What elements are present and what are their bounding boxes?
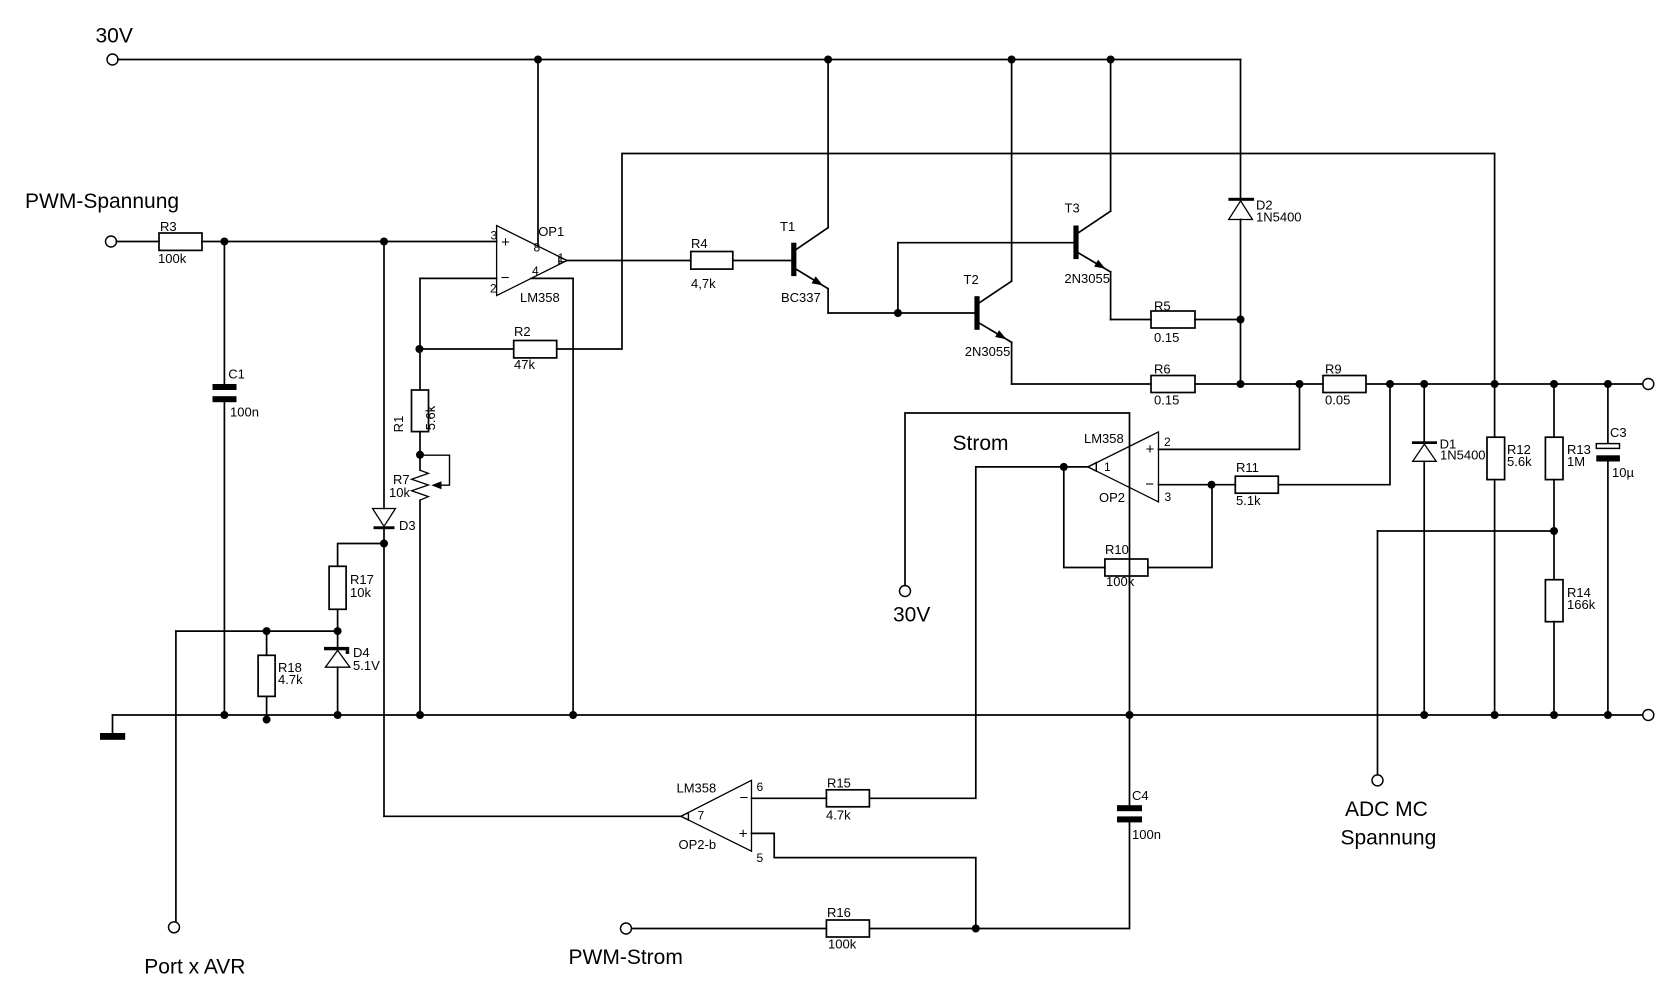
wire R10 left xyxy=(1064,467,1105,568)
svg-text:4.7k: 4.7k xyxy=(278,672,303,687)
svg-text:T3: T3 xyxy=(1065,201,1080,216)
svg-text:0.05: 0.05 xyxy=(1325,393,1350,408)
transistor T2 base bar xyxy=(974,296,979,330)
resistor R11 xyxy=(1235,476,1278,493)
junction R12 top xyxy=(1491,380,1499,388)
svg-text:−: − xyxy=(740,789,749,806)
svg-text:4: 4 xyxy=(532,264,539,278)
svg-text:LM358: LM358 xyxy=(677,781,717,796)
transistor T1 base bar xyxy=(791,243,796,276)
svg-text:C3: C3 xyxy=(1610,425,1627,440)
junction T1 emitter node xyxy=(894,309,902,317)
resistor R2 xyxy=(514,341,557,358)
wire ADC tap horizontal xyxy=(1378,530,1555,532)
wire R2 left xyxy=(420,348,514,350)
svg-text:5.6k: 5.6k xyxy=(423,405,438,430)
svg-text:ADC MC: ADC MC xyxy=(1345,798,1428,821)
terminal output plus xyxy=(1643,379,1654,390)
wire T1 emitter down xyxy=(827,289,829,313)
svg-text:C4: C4 xyxy=(1132,788,1149,803)
wire C1 to ground rail xyxy=(223,402,225,715)
wire C3 top xyxy=(1607,384,1609,444)
svg-text:−: − xyxy=(501,270,510,287)
svg-text:47k: 47k xyxy=(514,357,535,372)
wire OP2 minus input xyxy=(1159,484,1236,486)
resistor R9 xyxy=(1323,376,1366,393)
wire PWM input to R3 xyxy=(117,241,160,243)
svg-text:5.6k: 5.6k xyxy=(1507,454,1532,469)
wire R5 to D2 node xyxy=(1195,319,1241,321)
svg-text:0.15: 0.15 xyxy=(1154,330,1179,345)
junction OP2-b plus node xyxy=(972,925,980,933)
wire 30V aux to OP2 supply xyxy=(905,413,1130,805)
wire R14 bottom to ground xyxy=(1553,622,1555,715)
wire R17 to D4 xyxy=(337,609,339,647)
capacitor C3 plus plate xyxy=(1596,444,1619,449)
junction D2/R6 node xyxy=(1237,380,1245,388)
svg-text:OP1: OP1 xyxy=(538,224,564,239)
wire OP1 pin4 to ground xyxy=(531,278,573,715)
svg-text:+: + xyxy=(1146,441,1155,458)
terminal Port x AVR xyxy=(169,922,180,933)
junction R1/R7 wiper node xyxy=(416,451,424,459)
svg-text:T1: T1 xyxy=(780,219,795,234)
wire OP1 pin8 to 30V rail xyxy=(537,60,539,247)
terminal PWM-Strom xyxy=(621,923,632,934)
svg-text:LM358: LM358 xyxy=(1084,431,1124,446)
junction ground R12 xyxy=(1491,711,1499,719)
svg-text:R2: R2 xyxy=(514,324,531,339)
junction R2 / minus input node xyxy=(415,345,423,353)
svg-text:R9: R9 xyxy=(1325,362,1342,377)
wire R1 to R7 xyxy=(419,432,421,455)
transistor T3 emitter xyxy=(1078,253,1111,272)
svg-text:100k: 100k xyxy=(158,251,187,266)
svg-text:100n: 100n xyxy=(230,405,259,420)
junction ground R7 xyxy=(416,711,424,719)
transistor T2 emitter xyxy=(979,323,1012,342)
wire R13 top xyxy=(1553,384,1555,437)
resistor R6 xyxy=(1151,376,1195,393)
wire R11 right to output rail xyxy=(1278,384,1390,485)
transistor T1 collector xyxy=(796,228,828,250)
svg-text:5: 5 xyxy=(757,851,764,865)
svg-text:R15: R15 xyxy=(827,776,851,791)
wire ground rail xyxy=(113,714,1644,716)
wire OP2-b output xyxy=(384,815,681,817)
junction D3 cathode node xyxy=(380,540,388,548)
wire T3 emitter to R5 xyxy=(1111,319,1151,321)
wire PWM node to D3 xyxy=(383,242,385,509)
resistor R3 xyxy=(159,233,202,250)
wire R4 to T1 base xyxy=(733,260,792,262)
wire base node to T3 base xyxy=(898,242,1074,244)
wire R18 bottom xyxy=(266,696,268,719)
svg-text:R4: R4 xyxy=(691,236,708,251)
wire minus node to R1 xyxy=(419,349,421,390)
transistor T1 emitter xyxy=(796,269,828,289)
capacitor C1 xyxy=(213,384,237,390)
junction OP2 output node xyxy=(1060,463,1068,471)
junction R3/C1 node xyxy=(220,238,228,246)
transistor T2 collector xyxy=(979,281,1012,303)
diode D1 triangle xyxy=(1413,444,1437,461)
junction D2/R5 node xyxy=(1237,316,1245,324)
transistor T2 emitter arrow xyxy=(995,330,1006,339)
svg-text:166k: 166k xyxy=(1567,597,1596,612)
svg-text:30V: 30V xyxy=(96,25,133,48)
svg-text:PWM-Spannung: PWM-Spannung xyxy=(25,190,179,213)
svg-text:+: + xyxy=(739,826,748,843)
transistor T1 emitter arrow xyxy=(812,276,824,285)
wire R18 top xyxy=(266,631,268,655)
op-amp OP2 output notch xyxy=(1088,463,1096,471)
junction ground C1 xyxy=(220,711,228,719)
svg-text:3: 3 xyxy=(1165,490,1172,504)
svg-text:−: − xyxy=(1145,476,1154,493)
svg-text:R3: R3 xyxy=(160,219,177,234)
svg-text:4.7k: 4.7k xyxy=(826,808,851,823)
svg-text:OP2-b: OP2-b xyxy=(679,837,717,852)
wire base node up xyxy=(897,243,899,313)
wire D1 top xyxy=(1423,384,1425,441)
transistor T3 emitter arrow xyxy=(1094,260,1105,269)
svg-text:1: 1 xyxy=(558,251,565,265)
wire OP1 minus input xyxy=(420,278,497,349)
wire T1 collector to 30V rail xyxy=(827,60,829,228)
resistor R14 xyxy=(1545,580,1563,622)
wire PWM-Strom to R16 xyxy=(632,928,827,930)
svg-text:PWM-Strom: PWM-Strom xyxy=(569,946,683,969)
svg-text:100k: 100k xyxy=(1106,574,1135,589)
diode D1 cathode bar xyxy=(1412,441,1437,444)
wire T2 emitter down xyxy=(1011,342,1013,384)
svg-text:10k: 10k xyxy=(389,485,410,500)
svg-text:OP2: OP2 xyxy=(1099,490,1125,505)
svg-text:Spannung: Spannung xyxy=(1341,827,1437,850)
wire D2 anode down xyxy=(1240,219,1242,384)
wire 30V rail to D2 xyxy=(1240,60,1242,198)
wire D1 anode to ground xyxy=(1423,461,1425,715)
svg-text:R11: R11 xyxy=(1236,460,1259,475)
junction 30V rail / T1 collector xyxy=(824,56,832,64)
svg-text:1: 1 xyxy=(1104,460,1111,474)
svg-text:D3: D3 xyxy=(399,518,416,533)
junction ground R17/D4 xyxy=(334,711,342,719)
svg-text:0.15: 0.15 xyxy=(1154,393,1179,408)
svg-text:30V: 30V xyxy=(893,604,930,627)
wire D3 node to R17 xyxy=(338,544,384,567)
junction R13 top xyxy=(1550,380,1558,388)
resistor R17 xyxy=(329,566,346,609)
op-amp OP2-b output notch xyxy=(681,813,688,820)
wire OP2-b plus input xyxy=(752,833,976,928)
resistor R5 xyxy=(1151,311,1195,328)
resistor R12 xyxy=(1487,437,1505,479)
junction 30V rail / T2 collector xyxy=(1008,56,1016,64)
wire D4 to ground xyxy=(337,667,339,715)
svg-text:7: 7 xyxy=(698,809,705,823)
svg-text:R16: R16 xyxy=(827,905,851,920)
svg-text:5.1V: 5.1V xyxy=(353,658,380,673)
svg-text:C1: C1 xyxy=(228,366,245,381)
svg-text:5.1k: 5.1k xyxy=(1236,493,1261,508)
junction supply/ground crossing xyxy=(1126,711,1134,719)
junction OP2 minus node xyxy=(1208,481,1216,489)
svg-text:6: 6 xyxy=(757,780,764,794)
svg-text:1N5400: 1N5400 xyxy=(1440,448,1486,463)
wire R6 to R9 xyxy=(1195,383,1323,385)
junction ground OP1 pin4 xyxy=(569,711,577,719)
junction R18 ground xyxy=(263,716,271,724)
resistor R10 xyxy=(1105,559,1148,576)
svg-text:8: 8 xyxy=(534,241,541,255)
wire R2 right to output rail feedback xyxy=(557,154,1495,385)
zener D4 cathode bar xyxy=(324,647,349,650)
junction PWM/D3 node xyxy=(380,238,388,246)
resistor R18 xyxy=(258,655,275,696)
wire T3 emitter down xyxy=(1110,272,1112,320)
svg-text:R5: R5 xyxy=(1154,299,1171,314)
junction ground C3 xyxy=(1604,711,1612,719)
junction C3 top xyxy=(1604,380,1612,388)
wire R10 right xyxy=(1148,485,1212,568)
svg-text:1N5400: 1N5400 xyxy=(1256,210,1302,225)
wire OP2-b minus to R15 xyxy=(752,797,827,799)
svg-text:2: 2 xyxy=(1164,435,1171,449)
wire T2 collector to 30V rail xyxy=(1011,60,1013,282)
junction ground D1 xyxy=(1420,711,1428,719)
wire T2 emitter to R6 xyxy=(1012,383,1151,385)
svg-text:10k: 10k xyxy=(350,585,371,600)
op-amp OP2-b triangle xyxy=(681,780,752,851)
wire R12 top xyxy=(1494,384,1496,437)
svg-text:T2: T2 xyxy=(964,272,979,287)
wire ground stub xyxy=(112,715,114,733)
potentiometer R7 wiper arrow xyxy=(431,481,441,489)
resistor R16 xyxy=(826,920,869,937)
wire OP2 output down to R15 xyxy=(869,467,975,798)
resistor R13 xyxy=(1545,437,1563,479)
potentiometer R7 wiper xyxy=(420,455,450,485)
svg-text:3: 3 xyxy=(491,229,498,243)
wire T1 emitter to T2 base xyxy=(828,312,975,314)
svg-text:+: + xyxy=(501,234,510,251)
svg-text:2: 2 xyxy=(490,282,497,296)
transistor T3 collector xyxy=(1078,211,1111,233)
svg-text:10µ: 10µ xyxy=(1612,465,1634,480)
op-amp OP1 triangle xyxy=(497,226,567,296)
terminal 30V aux xyxy=(900,586,911,597)
svg-text:4,7k: 4,7k xyxy=(691,276,716,291)
ground symbol xyxy=(100,733,125,740)
svg-text:R6: R6 xyxy=(1154,362,1171,377)
wire R13 to R14 xyxy=(1553,480,1555,580)
svg-text:R1: R1 xyxy=(391,416,406,433)
svg-text:2N3055: 2N3055 xyxy=(965,344,1011,359)
transistor T3 base bar xyxy=(1073,226,1078,260)
terminal ground out xyxy=(1643,710,1654,721)
wire OP2 plus input xyxy=(1159,384,1300,449)
junction ground R14 xyxy=(1550,711,1558,719)
terminal ADC MC xyxy=(1372,775,1383,786)
junction 30V rail / OP1 pin8 xyxy=(534,56,542,64)
diode D3 triangle xyxy=(373,509,396,527)
junction ADC tap node xyxy=(1550,527,1558,535)
wire bias node horizontal xyxy=(176,630,338,632)
svg-text:2N3055: 2N3055 xyxy=(1064,271,1110,286)
junction 30V rail / T3 collector xyxy=(1107,56,1115,64)
svg-text:R10: R10 xyxy=(1105,542,1129,557)
potentiometer R7 zigzag xyxy=(419,455,421,470)
capacitor C3 minus plate xyxy=(1596,455,1620,461)
diode D2 cathode bar xyxy=(1228,198,1254,201)
wire R16 to C4 xyxy=(869,822,1129,928)
capacitor C4 xyxy=(1117,805,1142,811)
wire D3 to node xyxy=(383,529,385,543)
junction R17/D4 node xyxy=(334,627,342,635)
wire OP2 output xyxy=(976,466,1088,468)
svg-text:LM358: LM358 xyxy=(520,290,560,305)
junction R18 top node xyxy=(263,627,271,635)
terminal PWM-Spannung xyxy=(106,236,117,247)
svg-text:1M: 1M xyxy=(1567,454,1585,469)
wire ADC tap vertical xyxy=(1377,531,1379,775)
junction D1 top xyxy=(1420,380,1428,388)
zener D4 triangle xyxy=(325,650,350,667)
wire C3 bottom to ground xyxy=(1607,462,1609,716)
terminal 30V input xyxy=(107,54,118,65)
wire D3 node down to OP2-b output xyxy=(383,544,385,817)
wire T3 collector to 30V rail xyxy=(1110,60,1112,212)
wire 30V rail xyxy=(118,59,1241,61)
resistor R4 xyxy=(691,252,733,270)
op-amp OP2 triangle xyxy=(1088,432,1159,502)
svg-text:100n: 100n xyxy=(1132,827,1161,842)
svg-text:BC337: BC337 xyxy=(781,290,821,305)
svg-text:Strom: Strom xyxy=(953,432,1009,455)
svg-text:Port x AVR: Port x AVR xyxy=(144,956,245,979)
wire PWM node to C1 xyxy=(223,242,225,385)
svg-text:100k: 100k xyxy=(828,937,857,952)
wire OP1 output to R4 xyxy=(567,260,691,262)
diode D2 triangle xyxy=(1229,201,1253,220)
wire R3 to OP1 + input xyxy=(202,241,497,243)
junction R11 tap xyxy=(1386,380,1394,388)
resistor R15 xyxy=(826,790,869,807)
wire Port x AVR vertical xyxy=(175,631,177,922)
resistor R1 xyxy=(412,390,429,432)
diode D3 cathode bar xyxy=(374,526,395,529)
wire R12 bottom to ground xyxy=(1494,480,1496,715)
op-amp OP1 output notch xyxy=(559,257,567,264)
junction OP2 plus tap xyxy=(1296,380,1304,388)
wire R9 to output rail xyxy=(1366,383,1643,385)
